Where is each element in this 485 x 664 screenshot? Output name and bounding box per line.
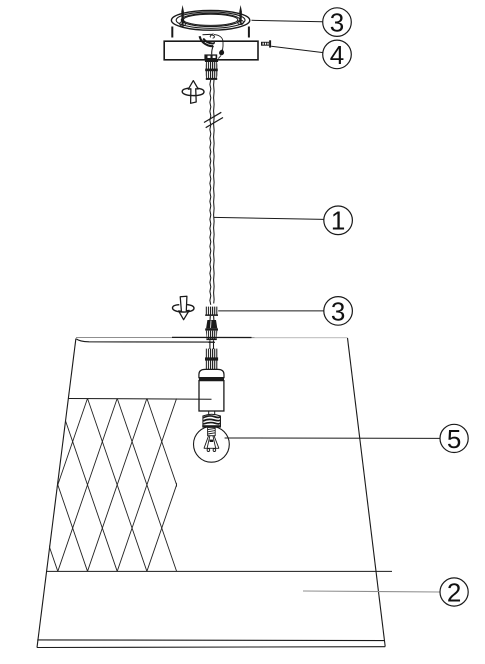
mounting plate — [164, 41, 258, 60]
svg-text:1: 1 — [331, 206, 345, 236]
collar flange — [205, 328, 218, 330]
hook sketch — [200, 34, 215, 46]
leader line to callout 3 top — [252, 20, 323, 22]
filament cage — [204, 436, 219, 452]
bulb neck ticks — [209, 411, 215, 415]
shade top back rim (gray) — [76, 337, 348, 339]
break slash 2 — [206, 118, 223, 128]
svg-text:3: 3 — [330, 8, 344, 38]
shade top rim dark segment — [172, 336, 252, 338]
socket body — [199, 369, 224, 411]
callout 1 — [324, 206, 353, 236]
filament stem — [208, 428, 216, 436]
callout 2 — [440, 577, 468, 607]
cone collar — [206, 320, 217, 328]
shade top front rim — [76, 339, 213, 342]
cord from hook to cap — [212, 46, 214, 54]
bulb glass — [194, 426, 230, 462]
cord grip nut (middle, part3) — [205, 307, 218, 316]
knot teardrop — [219, 50, 224, 56]
screw icon part4 — [261, 40, 270, 47]
cap on plate bottom — [204, 54, 217, 59]
shade right edge — [348, 338, 386, 647]
bulb screw base — [202, 414, 221, 427]
callout 4 — [323, 40, 352, 70]
lattice pattern — [0, 398, 206, 571]
svg-text:5: 5 — [447, 424, 461, 454]
ribbed barrel below flange — [206, 331, 218, 341]
callout 3 top — [323, 8, 352, 38]
svg-text:3: 3 — [331, 296, 345, 326]
lattice bottom border line — [46, 570, 392, 572]
canopy left screw — [180, 5, 186, 26]
canopy left side wall — [171, 27, 173, 38]
shade left edge — [37, 339, 76, 648]
canopy right side wall — [248, 27, 250, 38]
hook wire to knot — [214, 35, 223, 51]
neck between barrel and socket nut — [208, 340, 215, 349]
lattice top border line — [68, 398, 211, 401]
neck below nut — [210, 316, 214, 320]
leader line to callout 4 — [271, 46, 323, 52]
wire from knot to cap — [218, 56, 221, 59]
shade bottom rim lower line — [37, 646, 385, 649]
canopy right screw — [238, 5, 244, 25]
leader line to callout 2 (gray) — [303, 591, 440, 592]
svg-text:4: 4 — [330, 40, 344, 70]
leader line to callout 3 middle — [218, 310, 324, 312]
leader line to callout 5 — [225, 437, 440, 439]
shade bottom rim upper line — [37, 639, 384, 642]
socket top nut — [205, 349, 218, 370]
twisted cord — [210, 80, 214, 305]
canopy ring U1 — [171, 10, 249, 30]
callout 5 — [440, 424, 468, 454]
callout 3 middle — [324, 296, 353, 326]
rotation arrow up — [182, 81, 204, 104]
svg-text:2: 2 — [447, 577, 461, 607]
leader line to callout 1 — [214, 217, 324, 219]
strain relief barrel under plate — [205, 60, 218, 80]
break slash 1 — [204, 112, 221, 122]
rotation arrow down — [172, 296, 194, 319]
